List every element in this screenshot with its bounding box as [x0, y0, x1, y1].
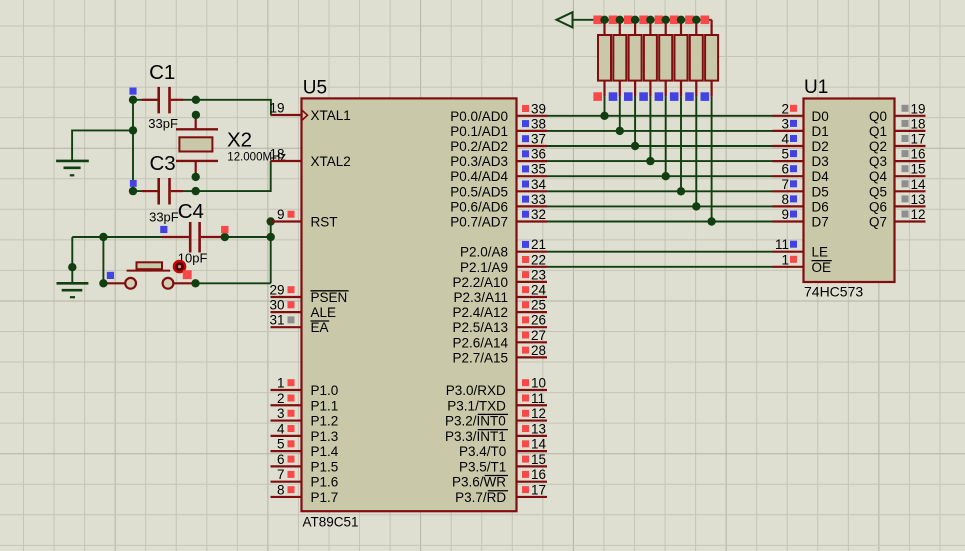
svg-text:P1.4: P1.4: [311, 444, 339, 459]
svg-text:18: 18: [911, 116, 926, 131]
svg-text:7: 7: [277, 467, 285, 482]
junction top bus at R3: [631, 16, 639, 24]
wire XTAL2 net from C3/X2 to pin 18: [196, 161, 271, 191]
IC U1 74HC573 body: [804, 99, 895, 283]
junction button left: [99, 279, 107, 287]
svg-text:12: 12: [911, 207, 926, 222]
pin-state square button left (blue): [107, 272, 114, 279]
junction C3 left: [129, 187, 137, 195]
svg-text:C4: C4: [178, 200, 204, 223]
svg-text:74HC573: 74HC573: [804, 284, 863, 300]
capacitor C4: [162, 222, 225, 253]
svg-text:EA: EA: [311, 320, 329, 335]
U5 pin 38 P0.1/AD1: [450, 116, 547, 139]
U5 pin 30 ALE: [269, 298, 336, 321]
U5 pin 21 P2.0/A8: [460, 237, 547, 260]
U1 pin 13 Q6: [869, 192, 926, 215]
svg-text:P3.4/T0: P3.4/T0: [459, 444, 506, 459]
pin-state square R4 top: [639, 16, 648, 25]
svg-text:D1: D1: [812, 124, 829, 139]
U5 pin 4 P1.3: [271, 421, 339, 444]
svg-text:PSEN: PSEN: [311, 290, 348, 305]
U1 pin 1 OE: [773, 252, 832, 275]
svg-text:XTAL1: XTAL1: [311, 108, 351, 123]
junction RST pin: [267, 217, 275, 225]
svg-text:P3.6/WR: P3.6/WR: [452, 475, 506, 490]
svg-text:ALE: ALE: [311, 305, 337, 320]
pin-state square R4 bottom: [639, 92, 648, 101]
svg-text:Q4: Q4: [869, 169, 888, 184]
wire P2.0/A8 to LE: [547, 251, 773, 253]
wire P0.5/AD5 to D5: [547, 190, 773, 192]
svg-text:P2.3/A11: P2.3/A11: [453, 290, 508, 305]
junction C1 left: [129, 96, 137, 104]
junction top bus at R6: [677, 16, 685, 24]
wire R4 bottom to P0.3 net: [649, 97, 651, 162]
pin-state square R3 top: [624, 16, 633, 25]
U5 pin 29 PSEN: [269, 283, 348, 306]
junction AD2 with R3: [631, 142, 639, 150]
svg-text:X2: X2: [227, 128, 252, 151]
svg-text:2: 2: [277, 391, 285, 406]
ground symbol (reset): [57, 283, 89, 297]
svg-text:D6: D6: [812, 199, 829, 214]
svg-text:19: 19: [269, 101, 284, 116]
svg-text:34: 34: [531, 177, 547, 192]
pin-state square R2 bottom: [609, 92, 618, 101]
svg-text:P3.3/INT1: P3.3/INT1: [445, 429, 506, 444]
pin-state square R1 bottom: [593, 92, 602, 101]
wire R5 bottom to P0.4 net: [665, 97, 667, 177]
svg-text:P0.4/AD4: P0.4/AD4: [450, 169, 508, 184]
svg-text:U1: U1: [804, 77, 828, 98]
U1 pin 4 D2: [773, 132, 829, 155]
svg-text:15: 15: [911, 162, 926, 177]
svg-text:8: 8: [277, 482, 285, 497]
U5 pin 14 P3.4/T0: [459, 437, 547, 460]
svg-text:14: 14: [911, 177, 927, 192]
terminal arrow (net input, pointing left): [557, 12, 573, 27]
junction button right: [191, 279, 199, 287]
svg-text:Q5: Q5: [869, 184, 887, 199]
svg-text:25: 25: [531, 298, 546, 313]
ground symbol (crystal): [56, 161, 89, 175]
svg-text:32: 32: [531, 207, 546, 222]
U5 pin 22 P2.1/A9: [460, 252, 547, 275]
svg-text:Q0: Q0: [869, 109, 887, 124]
svg-text:23: 23: [531, 267, 546, 282]
pin-state square R1 top: [593, 16, 602, 25]
U1 pin 11 LE: [773, 237, 829, 260]
svg-text:C3: C3: [150, 152, 176, 175]
svg-text:D7: D7: [812, 215, 829, 230]
svg-text:Q6: Q6: [869, 199, 887, 214]
resistor R6: [675, 20, 688, 97]
pin-state square R8 top: [701, 16, 710, 25]
resistor R5: [659, 20, 672, 97]
svg-text:P0.0/AD0: P0.0/AD0: [450, 109, 508, 124]
U5 pin 16 P3.6/WR: [452, 467, 547, 490]
junction AD6 with R7: [692, 202, 700, 210]
U5 pin 19 XTAL1: [269, 101, 350, 124]
capacitor C1: [133, 87, 196, 114]
svg-text:C1: C1: [149, 61, 175, 84]
svg-text:D2: D2: [812, 139, 829, 154]
capacitor C3: [133, 178, 196, 205]
U1 pin 8 D6: [773, 192, 829, 215]
pin-state square R7 bottom: [685, 92, 694, 101]
U1 pin 3 D1: [773, 116, 829, 139]
wire ground2 vertical: [71, 237, 73, 283]
svg-text:22: 22: [531, 252, 546, 267]
svg-text:2: 2: [781, 101, 789, 116]
junction AD7 with R8: [707, 217, 715, 225]
wire R8 bottom to P0.7 net: [711, 97, 713, 222]
button actuator marker: [174, 261, 185, 272]
svg-text:D5: D5: [812, 184, 829, 199]
junction AD0 with R1: [600, 112, 608, 120]
svg-text:P0.1/AD1: P0.1/AD1: [450, 124, 508, 139]
svg-text:7: 7: [781, 177, 789, 192]
svg-text:P2.2/A10: P2.2/A10: [452, 275, 508, 290]
svg-text:P1.7: P1.7: [311, 490, 339, 505]
U5 pin 31 EA: [269, 313, 329, 336]
svg-text:19: 19: [911, 101, 926, 116]
pin-state square C1 left (blue): [129, 88, 136, 95]
U5 pin 18 XTAL2: [269, 147, 350, 170]
junction top bus at R1: [600, 16, 608, 24]
U5 pin 6 P1.5: [271, 452, 339, 475]
svg-text:P2.5/A13: P2.5/A13: [452, 320, 508, 335]
wire left vertical C1-C3: [132, 100, 134, 191]
junction AD4 with R5: [662, 172, 670, 180]
U5 pin 24 P2.3/A11: [453, 283, 547, 306]
U1 pin 9 D7: [773, 207, 829, 230]
svg-text:3: 3: [277, 406, 285, 421]
pin-state square R3 bottom: [624, 92, 633, 101]
pin-state square R7 top: [685, 16, 694, 25]
pin-state square C4 right (red): [221, 226, 228, 233]
junction AD1 with R2: [616, 127, 624, 135]
junction C1 right / X2 top net: [192, 96, 200, 104]
U5 pin 9 RST: [271, 207, 338, 230]
crystal X2: [176, 115, 218, 177]
resistor R3: [629, 20, 642, 97]
U5 pin 2 P1.1: [271, 391, 339, 414]
wire R3 bottom to P0.2 net: [634, 97, 636, 146]
wire R2 bottom to P0.1 net: [619, 97, 621, 131]
svg-text:P1.6: P1.6: [311, 475, 339, 490]
pin-state square C4 left (blue): [160, 226, 167, 233]
svg-text:P0.7/AD7: P0.7/AD7: [450, 215, 508, 230]
svg-text:13: 13: [911, 192, 926, 207]
U5 pin 32 P0.7/AD7: [450, 207, 547, 230]
U5 pin 11 P3.1/TXD: [447, 391, 547, 414]
svg-text:10: 10: [531, 376, 546, 391]
svg-text:4: 4: [781, 132, 789, 147]
U5 pin 23 P2.2/A10: [452, 267, 547, 290]
svg-text:Q2: Q2: [869, 139, 887, 154]
svg-text:RST: RST: [311, 215, 338, 230]
svg-text:D3: D3: [812, 154, 829, 169]
svg-text:14: 14: [531, 437, 547, 452]
pin-state square R8 bottom: [701, 92, 710, 101]
svg-text:16: 16: [531, 467, 546, 482]
junction top bus at R2: [616, 16, 624, 24]
svg-text:P0.2/AD2: P0.2/AD2: [450, 139, 508, 154]
wire R1 bottom to P0.0 net: [604, 97, 606, 116]
junction top bus at R7: [692, 16, 700, 24]
svg-text:27: 27: [531, 328, 546, 343]
svg-text:9: 9: [781, 207, 789, 222]
junction top bus at R4: [646, 16, 654, 24]
svg-text:6: 6: [781, 162, 789, 177]
svg-text:P0.5/AD5: P0.5/AD5: [450, 184, 508, 199]
svg-text:P1.1: P1.1: [311, 398, 339, 413]
pin-state square R2 top: [609, 16, 618, 25]
svg-text:35: 35: [531, 162, 546, 177]
svg-text:17: 17: [531, 482, 546, 497]
push button (reset): [106, 262, 196, 288]
svg-text:Q3: Q3: [869, 154, 887, 169]
svg-text:P2.1/A9: P2.1/A9: [460, 260, 508, 275]
wire XTAL1 net from C1/X2 to pin 19: [196, 100, 271, 115]
U1 pin 15 Q4: [869, 162, 926, 185]
svg-text:OE: OE: [812, 260, 832, 275]
U1 pin 12 Q7: [869, 207, 926, 230]
wire P0.3/AD3 to D3: [547, 160, 773, 162]
U5 pin 25 P2.4/A12: [452, 298, 547, 321]
svg-text:D0: D0: [812, 109, 829, 124]
U5 pin 8 P1.7: [271, 482, 339, 505]
svg-text:8: 8: [781, 192, 789, 207]
svg-text:17: 17: [911, 132, 926, 147]
U1 pin 7 D5: [773, 177, 829, 200]
svg-text:P3.7/RD: P3.7/RD: [455, 490, 506, 505]
svg-text:1: 1: [781, 252, 789, 267]
U5 pin 5 P1.4: [271, 437, 339, 460]
svg-text:P1.3: P1.3: [311, 429, 339, 444]
svg-text:5: 5: [277, 437, 285, 452]
junction RST vertical/C4: [267, 233, 275, 241]
junction AD5 with R6: [677, 187, 685, 195]
wire P0.2/AD2 to D2: [547, 145, 773, 147]
svg-text:P3.0/RXD: P3.0/RXD: [446, 383, 506, 398]
U5 pin 27 P2.6/A14: [452, 328, 547, 351]
U5 pin 35 P0.4/AD4: [450, 162, 547, 185]
junction X2 bottom pin: [192, 173, 200, 181]
resistor R4: [644, 20, 657, 97]
U5 pin 3 P1.2: [271, 406, 339, 429]
svg-text:P0.3/AD3: P0.3/AD3: [450, 154, 508, 169]
junction reset branch: [99, 233, 107, 241]
wire P0.0/AD0 to D0: [547, 115, 773, 117]
junction ground branch: [129, 126, 137, 134]
wire P2.1/A9 to OE: [547, 266, 773, 268]
svg-text:P3.1/TXD: P3.1/TXD: [447, 398, 506, 413]
wire P0.4/AD4 to D4: [547, 175, 773, 177]
U5 pin 39 P0.0/AD0: [450, 101, 547, 124]
resistor R7: [690, 20, 703, 97]
resistor R2: [613, 20, 626, 97]
svg-text:P3.5/T1: P3.5/T1: [459, 459, 506, 474]
U5 pin 12 P3.2/INT0: [445, 406, 547, 429]
U5 pin 28 P2.7/A15: [452, 343, 547, 366]
svg-text:11: 11: [775, 237, 789, 252]
U1 pin 2 D0: [773, 101, 829, 124]
pin-state square R6 bottom: [670, 92, 679, 101]
wire ground branch: [72, 130, 133, 161]
junction ground2 pin: [68, 263, 76, 271]
junction C4 right: [221, 233, 229, 241]
svg-text:6: 6: [277, 452, 285, 467]
wire C4 right to RST vertical: [225, 236, 271, 238]
svg-text:33pF: 33pF: [148, 116, 178, 131]
pin-state square R6 top: [670, 16, 679, 25]
svg-text:P0.6/AD6: P0.6/AD6: [450, 199, 508, 214]
wire button branch vertical: [102, 237, 104, 283]
U5 pin 17 P3.7/RD: [455, 482, 547, 505]
U1 pin 16 Q3: [869, 147, 926, 170]
U5 pin 37 P0.2/AD2: [450, 132, 547, 155]
svg-text:28: 28: [531, 343, 546, 358]
resistor R1: [598, 20, 611, 97]
svg-text:P2.6/A14: P2.6/A14: [452, 335, 508, 350]
U5 pin 15 P3.5/T1: [459, 452, 547, 475]
svg-text:38: 38: [531, 116, 546, 131]
svg-text:13: 13: [531, 421, 546, 436]
U5 pin 7 P1.6: [271, 467, 339, 490]
svg-text:16: 16: [911, 147, 926, 162]
wire R6 bottom to P0.5 net: [680, 97, 682, 192]
svg-text:33: 33: [531, 192, 546, 207]
wire R7 bottom to P0.6 net: [695, 97, 697, 207]
svg-text:P1.5: P1.5: [311, 459, 339, 474]
svg-text:P2.4/A12: P2.4/A12: [452, 305, 508, 320]
U1 pin 14 Q5: [869, 177, 926, 200]
wire RST vertical: [270, 222, 272, 284]
wire RST to pin 9: [271, 221, 276, 223]
IC U5 AT89C51 body: [302, 98, 517, 511]
svg-text:24: 24: [531, 283, 547, 298]
svg-text:P3.2/INT0: P3.2/INT0: [445, 414, 506, 429]
svg-text:U5: U5: [303, 78, 327, 99]
pin-state square button right (red): [183, 270, 192, 279]
svg-text:XTAL2: XTAL2: [311, 154, 351, 169]
svg-text:39: 39: [531, 101, 546, 116]
svg-text:P2.0/A8: P2.0/A8: [460, 245, 508, 260]
svg-text:4: 4: [277, 421, 285, 436]
U5 pin 34 P0.5/AD5: [450, 177, 547, 200]
svg-text:P2.7/A15: P2.7/A15: [452, 350, 508, 365]
U5 pin 13 P3.3/INT1: [445, 421, 547, 444]
U5 pin 26 P2.5/A13: [452, 313, 547, 336]
U1 pin 6 D4: [773, 162, 830, 185]
svg-text:12: 12: [531, 406, 546, 421]
junction AD3 with R4: [646, 157, 654, 165]
svg-text:26: 26: [531, 313, 546, 328]
svg-text:5: 5: [781, 147, 789, 162]
svg-text:Q7: Q7: [869, 215, 887, 230]
svg-text:Q1: Q1: [869, 124, 887, 139]
svg-text:LE: LE: [812, 245, 829, 260]
pin-state square C3 left (blue): [130, 180, 137, 187]
svg-text:36: 36: [531, 147, 546, 162]
U5 pin 1 P1.0: [271, 376, 339, 399]
svg-text:30: 30: [269, 298, 284, 313]
svg-text:18: 18: [269, 147, 284, 162]
U5 pin 10 P3.0/RXD: [446, 376, 547, 399]
wire top bus: [573, 19, 712, 21]
svg-text:33pF: 33pF: [149, 210, 179, 225]
junction X2 top pin: [192, 111, 200, 119]
svg-text:AT89C51: AT89C51: [303, 514, 359, 529]
U5 pin 36 P0.3/AD3: [450, 147, 547, 170]
svg-text:15: 15: [531, 452, 546, 467]
wire P0.6/AD6 to D6: [547, 205, 773, 207]
U1 pin 5 D3: [773, 147, 829, 170]
wire P0.7/AD7 to D7: [547, 221, 773, 223]
wire P0.1/AD1 to D1: [547, 130, 773, 132]
U1 pin 19 Q0: [869, 101, 926, 124]
U5 pin 33 P0.6/AD6: [450, 192, 547, 215]
wire RST row from ground to C4: [72, 236, 162, 238]
junction C3 right / X2 bottom net: [192, 187, 200, 195]
svg-text:1: 1: [277, 376, 285, 391]
U1 pin 17 Q2: [869, 132, 926, 155]
svg-text:37: 37: [531, 132, 546, 147]
svg-text:11: 11: [531, 391, 545, 406]
svg-text:21: 21: [531, 237, 546, 252]
pin-state square R5 top: [655, 16, 664, 25]
wire button row: [196, 282, 271, 284]
svg-text:3: 3: [781, 116, 789, 131]
svg-text:P1.0: P1.0: [311, 383, 339, 398]
pin-state square R5 bottom: [655, 92, 664, 101]
svg-text:P1.2: P1.2: [311, 414, 339, 429]
U1 pin 18 Q1: [869, 116, 926, 139]
junction top bus at R5: [662, 16, 670, 24]
resistor R8: [705, 20, 718, 97]
svg-text:29: 29: [269, 283, 284, 298]
svg-text:D4: D4: [812, 169, 830, 184]
svg-text:9: 9: [277, 207, 285, 222]
svg-text:31: 31: [269, 313, 284, 328]
